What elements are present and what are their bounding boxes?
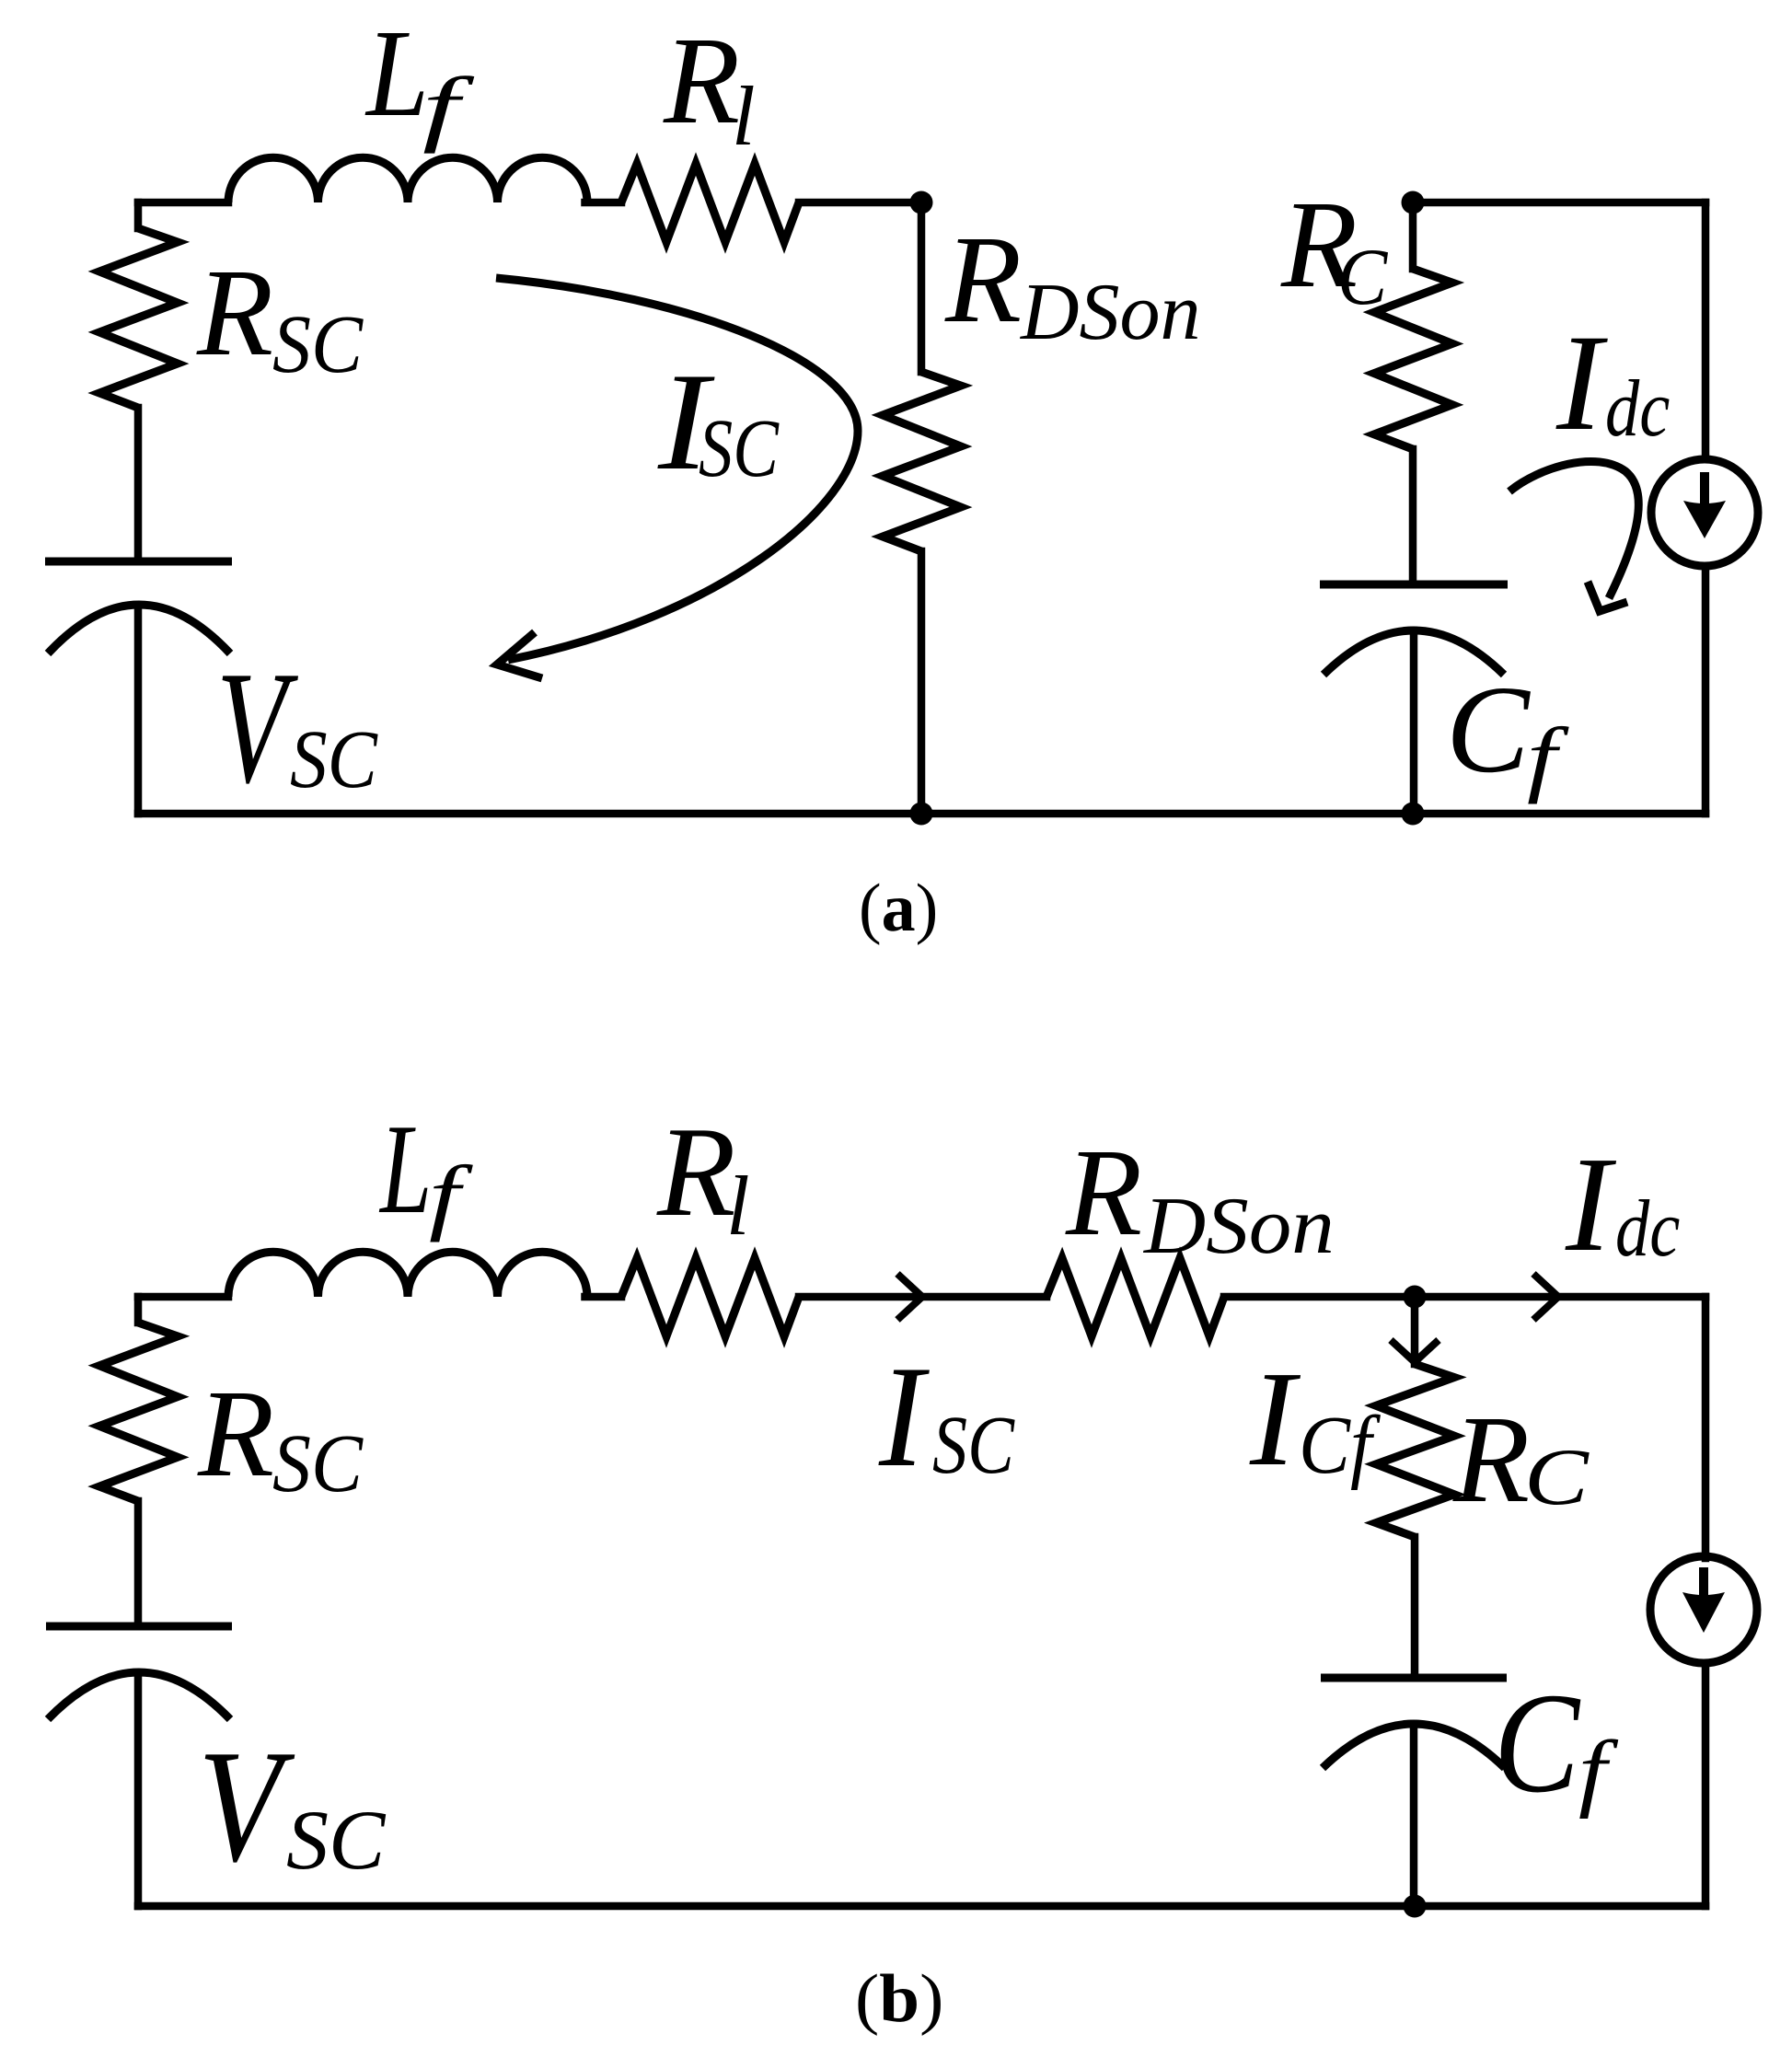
svg-text:R: R bbox=[944, 211, 1022, 349]
svg-text:V: V bbox=[198, 1716, 295, 1895]
svg-text:V: V bbox=[216, 638, 298, 816]
resistor RDSon (b) bbox=[1046, 1258, 1224, 1336]
source VSC (a): curved plate bbox=[48, 605, 230, 653]
wire: (b) right vertical upper bbox=[1702, 1297, 1710, 1558]
wire: (a) RC to Cf plate bbox=[1409, 449, 1417, 584]
node: (a) top of RDSon branch bbox=[910, 191, 933, 214]
wire: (a) right vertical lower bbox=[1702, 566, 1710, 814]
svg-text:C: C bbox=[1524, 1433, 1590, 1522]
wire: (a) left vertical stub below corner bbox=[134, 202, 143, 228]
capacitor Cf (a): curved plate bbox=[1324, 630, 1504, 675]
svg-text:SC: SC bbox=[699, 403, 780, 494]
wire: (b) RSC to VSC plate bbox=[134, 1501, 143, 1626]
resistor RC (b) bbox=[1376, 1364, 1454, 1537]
current source Idc (a): arrow bbox=[1700, 472, 1709, 505]
wire: (b) top right to corner bbox=[1415, 1293, 1705, 1301]
current arrow ICf (b) on branch bbox=[1391, 1340, 1439, 1362]
wire: (a) Cf arc to bottom bbox=[1410, 630, 1418, 814]
svg-text:R: R bbox=[656, 1101, 736, 1243]
svg-text:Cf: Cf bbox=[1299, 1400, 1382, 1491]
wire: (b) between Lf and Rl bbox=[585, 1293, 622, 1301]
svg-text:I: I bbox=[1249, 1344, 1301, 1495]
capacitor Cf (b): curved plate bbox=[1323, 1724, 1505, 1768]
svg-text:R: R bbox=[196, 244, 273, 382]
resistor RSC (a) bbox=[99, 228, 178, 408]
svg-text:L: L bbox=[364, 5, 429, 143]
wire: (b) right vertical lower bbox=[1702, 1665, 1710, 1906]
svg-text:SC: SC bbox=[932, 1400, 1015, 1491]
wire: (b) Cf arc to bottom bbox=[1410, 1724, 1418, 1906]
wire: (b) RDSon to node bbox=[1224, 1293, 1415, 1301]
wire: (b) Rl to RDSon bbox=[799, 1293, 1046, 1301]
svg-text:I: I bbox=[878, 1336, 930, 1497]
svg-text:L: L bbox=[379, 1098, 433, 1241]
wire: (b) RC to Cf plate bbox=[1411, 1537, 1419, 1678]
svg-text:I: I bbox=[1565, 1129, 1617, 1280]
svg-text:R: R bbox=[1065, 1124, 1142, 1262]
current arrow ISC (b) on wire bbox=[897, 1274, 922, 1320]
svg-text:R: R bbox=[663, 12, 740, 150]
svg-text:I: I bbox=[1555, 306, 1608, 459]
current source Idc (a): circle bbox=[1651, 459, 1758, 566]
svg-text:f: f bbox=[1527, 711, 1570, 804]
wire: (a) node to RC bbox=[1409, 202, 1417, 269]
svg-text:DSon: DSon bbox=[1020, 268, 1201, 357]
current loop arrow ISC (a) bbox=[496, 278, 858, 660]
svg-text:R: R bbox=[1452, 1391, 1530, 1529]
inductor Lf (a) bbox=[228, 157, 587, 202]
resistor RSC (b) bbox=[99, 1323, 178, 1501]
wire: (a) RDSon to bottom bbox=[918, 551, 926, 814]
wire: (a) top-left horizontal segment bbox=[138, 199, 228, 207]
svg-text:SC: SC bbox=[272, 1418, 364, 1509]
inductor Lf (b) bbox=[228, 1252, 587, 1297]
svg-text:(a): (a) bbox=[859, 871, 938, 946]
node: (a) top of RC branch bbox=[1402, 191, 1425, 214]
node: (a) bottom of Cf branch bbox=[1402, 803, 1425, 826]
current arrow Idc hook (a) bbox=[1509, 461, 1638, 598]
svg-text:R: R bbox=[197, 1365, 274, 1503]
svg-text:l: l bbox=[726, 1159, 750, 1253]
wire: (b) left vertical stub bbox=[134, 1297, 143, 1323]
node: (b) top of RC/Cf branch bbox=[1404, 1286, 1427, 1309]
resistor RC (a) bbox=[1374, 269, 1452, 449]
svg-text:dc: dc bbox=[1615, 1185, 1680, 1274]
wire: (a) between Lf and Rl bbox=[585, 199, 622, 207]
svg-text:SC: SC bbox=[272, 299, 364, 390]
wire: (a) right vertical upper bbox=[1702, 202, 1710, 459]
node: (a) bottom of RDSon branch bbox=[910, 803, 933, 826]
resistor Rl (b) bbox=[621, 1258, 799, 1336]
svg-text:SC: SC bbox=[286, 1793, 387, 1887]
svg-text:f: f bbox=[1578, 1724, 1618, 1820]
source VSC (b): flat plate bbox=[46, 1623, 232, 1631]
wire: (a) right loop top bbox=[1413, 199, 1705, 207]
capacitor Cf (b): flat plate bbox=[1321, 1674, 1507, 1682]
source VSC (a): flat plate bbox=[45, 558, 232, 566]
svg-text:f: f bbox=[422, 60, 476, 154]
svg-text:DSon: DSon bbox=[1143, 1182, 1335, 1271]
wire: (a) bottom horizontal bbox=[138, 810, 1705, 818]
svg-text:SC: SC bbox=[290, 714, 378, 805]
wire: (b) bottom horizontal bbox=[138, 1902, 1705, 1911]
wire: (a) VSC arc to bottom bbox=[134, 607, 143, 814]
node: (b) bottom of Cf branch bbox=[1404, 1895, 1427, 1918]
svg-text:C: C bbox=[1337, 233, 1388, 322]
wire: (b) top-left horizontal segment bbox=[138, 1293, 228, 1301]
source VSC (b): curved plate bbox=[48, 1672, 230, 1719]
wire: (a) RSC to VSC plate bbox=[134, 408, 143, 561]
current source Idc (b): circle bbox=[1650, 1556, 1757, 1663]
wire: (a) Rl to node bbox=[799, 199, 921, 207]
wire: (b) VSC arc to bottom bbox=[134, 1674, 143, 1906]
current source Idc (b): arrow bbox=[1699, 1567, 1708, 1598]
wire: (a) node to RDSon bbox=[918, 202, 926, 372]
svg-text:dc: dc bbox=[1605, 364, 1670, 454]
current arrow Idc (b) on wire bbox=[1533, 1274, 1558, 1320]
svg-text:f: f bbox=[429, 1149, 474, 1242]
svg-text:(b): (b) bbox=[855, 1961, 943, 2037]
svg-text:C: C bbox=[1494, 1663, 1581, 1822]
capacitor Cf (a): flat plate bbox=[1320, 581, 1508, 589]
svg-text:l: l bbox=[732, 69, 756, 163]
resistor RDSon (a) bbox=[883, 372, 961, 551]
svg-text:C: C bbox=[1446, 661, 1531, 799]
resistor Rl (a) bbox=[621, 164, 799, 242]
wire: (b) node down to RC bbox=[1411, 1297, 1419, 1364]
